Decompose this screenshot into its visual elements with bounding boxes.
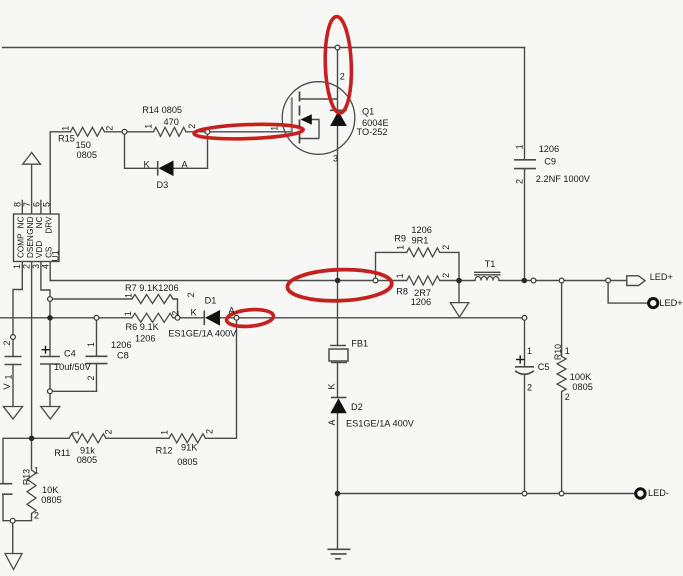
node open junction — [373, 278, 378, 283]
svg-text:6: 6 — [31, 202, 41, 207]
node open junction — [559, 278, 564, 283]
svg-text:LED+: LED+ — [659, 298, 682, 308]
svg-text:CS: CS — [45, 246, 54, 258]
svg-text:R11: R11 — [54, 448, 70, 458]
svg-text:2: 2 — [514, 179, 524, 184]
capacitor C8 — [86, 356, 108, 363]
wire left small cap branch — [3, 438, 32, 483]
capacitor upper-left cut-off — [5, 357, 22, 365]
Q1 body diode — [330, 109, 347, 111]
resistor R15 — [71, 127, 105, 136]
svg-text:0805: 0805 — [572, 382, 592, 392]
capacitor C5 — [515, 367, 534, 375]
wire D3 loop right — [174, 132, 208, 169]
svg-text:0805: 0805 — [77, 150, 97, 160]
resistor R9 — [407, 248, 440, 257]
svg-text:1: 1 — [395, 273, 405, 278]
annotation red ellipse at Q1 gate — [194, 123, 304, 141]
svg-text:2: 2 — [86, 375, 96, 380]
svg-text:C9: C9 — [544, 157, 556, 167]
node junction dot — [29, 436, 35, 442]
wire IC pin4 to rail — [49, 262, 51, 281]
wire R11 row — [32, 437, 69, 439]
wire Q1 drain/source vertical — [337, 48, 339, 281]
svg-text:1: 1 — [34, 466, 39, 476]
svg-text:1: 1 — [12, 264, 22, 269]
resistor R12 — [169, 434, 206, 443]
svg-text:1: 1 — [124, 293, 134, 298]
node junction dot — [456, 278, 462, 284]
svg-text:R13: R13 — [21, 469, 31, 485]
wire LED+ lower branch — [608, 281, 648, 304]
svg-text:R12: R12 — [156, 446, 173, 456]
wire top rail — [3, 47, 525, 49]
earth ground — [328, 549, 351, 559]
node open junction — [175, 315, 180, 320]
capacitor C4 — [40, 357, 60, 365]
svg-text:150: 150 — [76, 140, 91, 150]
wire C5 upper — [524, 318, 526, 367]
node open junction — [11, 335, 16, 340]
wire DSEN vertical — [31, 262, 33, 439]
resistor R11 — [69, 434, 106, 443]
svg-text:FB1: FB1 — [351, 339, 368, 349]
node open junction — [559, 491, 564, 496]
wire pin6 stub — [40, 201, 42, 215]
capacitor C9 — [514, 160, 536, 169]
svg-text:1206: 1206 — [135, 334, 155, 344]
diode D3 — [158, 161, 174, 177]
svg-text:1: 1 — [123, 311, 133, 316]
wire mid rail left part — [50, 280, 407, 282]
node open junction — [48, 297, 53, 302]
wire IC pin1 to left cap — [13, 262, 22, 357]
node open junction — [234, 315, 239, 320]
wire R13 top — [31, 438, 33, 470]
wire pin8 stub — [21, 201, 23, 215]
svg-text:A: A — [229, 306, 236, 316]
wire R7 left branch — [50, 298, 132, 300]
svg-text:470: 470 — [164, 117, 179, 127]
svg-text:1206: 1206 — [411, 225, 431, 235]
svg-text:DSEN: DSEN — [26, 235, 35, 258]
C5 plus sign — [516, 355, 525, 363]
wire GND arrow to pin7 — [31, 164, 33, 214]
svg-text:2: 2 — [565, 392, 570, 402]
resistor R10 — [557, 356, 566, 391]
svg-text:T1: T1 — [485, 259, 496, 269]
annotation red ellipse at mid node — [287, 268, 392, 303]
svg-text:1206: 1206 — [111, 340, 131, 350]
diode D2 — [330, 398, 347, 414]
svg-text:2: 2 — [527, 383, 532, 393]
svg-text:91K: 91K — [181, 443, 198, 453]
svg-text:LED-: LED- — [648, 488, 669, 498]
transistor Q1 — [282, 82, 355, 155]
node open junction — [522, 315, 527, 320]
node open junction — [522, 491, 527, 496]
wire C4 bottom — [49, 364, 51, 407]
svg-text:1: 1 — [86, 342, 96, 347]
svg-text:1: 1 — [395, 245, 405, 250]
ground triangle bottom left — [5, 554, 22, 570]
wire DRV to R15 — [50, 132, 70, 214]
svg-text:4: 4 — [40, 264, 50, 269]
svg-text:0805: 0805 — [77, 455, 97, 465]
wire left cap to ground — [12, 365, 14, 407]
wire R14 to gate junction — [186, 131, 208, 133]
wire mid rail right part — [440, 280, 475, 282]
node junction dot — [522, 278, 528, 284]
diode D1 — [204, 310, 220, 326]
capacitor left cut-off — [0, 484, 13, 495]
svg-text:0805: 0805 — [41, 495, 61, 505]
wire C9 branch upper — [524, 48, 526, 160]
pad LED+ circle — [649, 299, 658, 308]
inductor T1 — [474, 272, 501, 280]
svg-text:2: 2 — [34, 511, 39, 521]
node open junction — [122, 129, 127, 134]
svg-text:R14 0805: R14 0805 — [142, 105, 182, 115]
svg-text:8: 8 — [12, 202, 22, 207]
svg-text:1: 1 — [514, 144, 524, 149]
svg-text:1: 1 — [159, 430, 169, 435]
resistor R13 — [27, 470, 36, 514]
ground triangle left cap — [3, 407, 22, 420]
wire R10 branch — [561, 281, 563, 357]
node open junction — [531, 278, 536, 283]
svg-text:2: 2 — [441, 245, 451, 250]
svg-text:C5: C5 — [538, 362, 550, 372]
svg-text:2: 2 — [21, 264, 31, 269]
resistor R7 — [132, 295, 173, 304]
connector LED+ port — [627, 276, 645, 286]
svg-text:1: 1 — [565, 346, 570, 356]
node open junction — [94, 315, 99, 320]
svg-text:Q1: Q1 — [362, 107, 374, 117]
svg-text:R9: R9 — [394, 234, 406, 244]
svg-text:D1: D1 — [205, 296, 217, 306]
wire ground below R13 — [12, 521, 14, 554]
svg-text:1206: 1206 — [411, 297, 431, 307]
wire down-arrow stub — [458, 281, 460, 303]
svg-text:DRV: DRV — [45, 216, 54, 234]
svg-text:VDD: VDD — [35, 241, 44, 258]
op-amp U1 (controller IC) — [14, 214, 60, 262]
wire R15 to junction — [105, 131, 154, 133]
wire C4-C8 bottom link — [50, 390, 97, 392]
svg-text:K: K — [327, 383, 337, 389]
wire R12 to D1 node — [206, 318, 237, 439]
svg-text:1206: 1206 — [539, 144, 559, 154]
wire C9 branch lower — [524, 169, 526, 281]
svg-text:R6 9.1K: R6 9.1K — [126, 322, 160, 332]
wire R7 right down to D1 row — [173, 299, 178, 318]
node open junction — [606, 278, 611, 283]
svg-text:2.2NF 1000V: 2.2NF 1000V — [536, 174, 591, 184]
svg-text:C4: C4 — [64, 348, 76, 358]
wire C8 — [96, 318, 98, 357]
wire FB1 top — [337, 281, 339, 346]
svg-text:100K: 100K — [570, 372, 592, 382]
svg-text:2: 2 — [103, 429, 113, 434]
node junction dot — [335, 278, 341, 284]
svg-text:1: 1 — [269, 126, 279, 131]
pad LED- circle — [636, 489, 645, 498]
svg-text:1: 1 — [527, 346, 532, 356]
resistor R8 — [407, 276, 440, 285]
wire C5 lower — [524, 374, 526, 494]
node open junction — [10, 518, 15, 523]
svg-text:R8: R8 — [396, 287, 408, 297]
svg-text:1: 1 — [70, 430, 80, 435]
svg-text:10K: 10K — [42, 485, 59, 495]
wire D2 to LED- rail — [337, 413, 339, 493]
annotation red ellipse at Q1 drain — [324, 16, 353, 113]
svg-text:7: 7 — [22, 202, 32, 207]
svg-text:D2: D2 — [351, 402, 363, 412]
svg-text:V: V — [2, 383, 13, 390]
svg-text:ES1GE/1A 400V: ES1GE/1A 400V — [346, 418, 415, 428]
svg-text:D3: D3 — [157, 180, 169, 190]
svg-text:R10: R10 — [553, 344, 563, 360]
svg-text:A: A — [327, 419, 337, 425]
svg-text:LED+: LED+ — [650, 272, 673, 282]
node open junction — [205, 129, 210, 134]
resistor R6 — [132, 313, 173, 322]
svg-text:COMP: COMP — [17, 233, 26, 258]
svg-text:ES1GE/1A 400V: ES1GE/1A 400V — [168, 329, 237, 339]
power arrow above U1 — [23, 153, 41, 165]
wire gate lead — [208, 131, 292, 133]
svg-text:2: 2 — [441, 273, 451, 278]
node open junction — [335, 45, 340, 50]
svg-text:5: 5 — [41, 202, 51, 207]
svg-text:2: 2 — [171, 311, 181, 316]
svg-text:NC: NC — [35, 216, 44, 228]
ferrite bead FB1 — [329, 346, 348, 363]
svg-text:1: 1 — [143, 124, 153, 129]
svg-text:C8: C8 — [117, 351, 129, 361]
svg-text:3: 3 — [31, 264, 41, 269]
ground triangle C4 — [41, 407, 60, 420]
annotation red ellipse at D1 anode — [226, 308, 274, 328]
svg-text:2: 2 — [2, 340, 12, 345]
svg-text:2: 2 — [104, 126, 114, 131]
svg-text:3: 3 — [333, 153, 338, 163]
wire earth ground stem — [337, 494, 339, 550]
svg-text:K: K — [191, 308, 198, 318]
svg-text:91k: 91k — [80, 446, 95, 456]
svg-text:K: K — [144, 159, 151, 169]
svg-text:NC: NC — [17, 216, 26, 228]
svg-text:10uf/50V: 10uf/50V — [54, 362, 92, 372]
node junction dot — [47, 315, 53, 321]
C4 plus sign — [42, 346, 50, 354]
svg-text:2: 2 — [186, 292, 196, 297]
resistor R14 — [154, 127, 187, 136]
svg-text:TO-252: TO-252 — [357, 127, 388, 137]
svg-text:9R1: 9R1 — [412, 236, 429, 246]
svg-text:A: A — [182, 159, 189, 169]
wire R9 loop — [376, 252, 407, 280]
wire R13 bottom — [13, 514, 32, 521]
wire D1 row — [0, 317, 132, 319]
node junction dot — [335, 491, 341, 497]
svg-text:GND: GND — [26, 216, 35, 234]
wire FB1 to D2 — [337, 363, 339, 398]
svg-text:2: 2 — [187, 124, 197, 129]
node open junction — [48, 389, 53, 394]
wire IC pin3 VDD branch — [41, 262, 50, 357]
svg-text:2: 2 — [204, 429, 214, 434]
svg-text:1: 1 — [3, 374, 13, 379]
svg-text:1: 1 — [60, 126, 70, 131]
svg-text:R7 9.1K1206: R7 9.1K1206 — [125, 283, 179, 293]
wire LED- rail — [338, 493, 636, 495]
svg-text:0805: 0805 — [177, 457, 197, 467]
wire D3 loop left — [125, 132, 158, 169]
svg-text:R15: R15 — [58, 133, 75, 143]
svg-text:2: 2 — [340, 71, 345, 81]
down arrow at R8/T1 node — [450, 303, 469, 318]
